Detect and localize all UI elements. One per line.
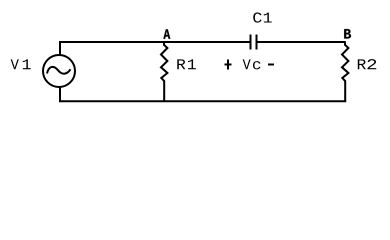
capacitor C1 right plate	[256, 35, 258, 50]
capacitor C1 left plate	[250, 35, 252, 50]
voltage source V1 circle	[43, 55, 75, 87]
label R1	[177, 59, 196, 69]
plus sign of Vc polarity	[225, 60, 232, 70]
wire from capacitor C1 to node B and down into R2	[257, 41, 345, 43]
label V1	[11, 59, 31, 69]
node B label	[344, 29, 351, 38]
resistor R1	[161, 42, 167, 101]
label C1	[253, 12, 271, 22]
wire bottom from V1 to R2	[60, 87, 346, 102]
wire top-left corner from V1 to node A	[60, 42, 250, 55]
resistor R2	[342, 41, 348, 101]
node A label	[163, 29, 170, 38]
minus sign of Vc polarity	[268, 64, 274, 66]
voltage source V1 sine wave	[47, 67, 71, 74]
label R2	[358, 59, 376, 69]
label Vc	[243, 59, 261, 69]
